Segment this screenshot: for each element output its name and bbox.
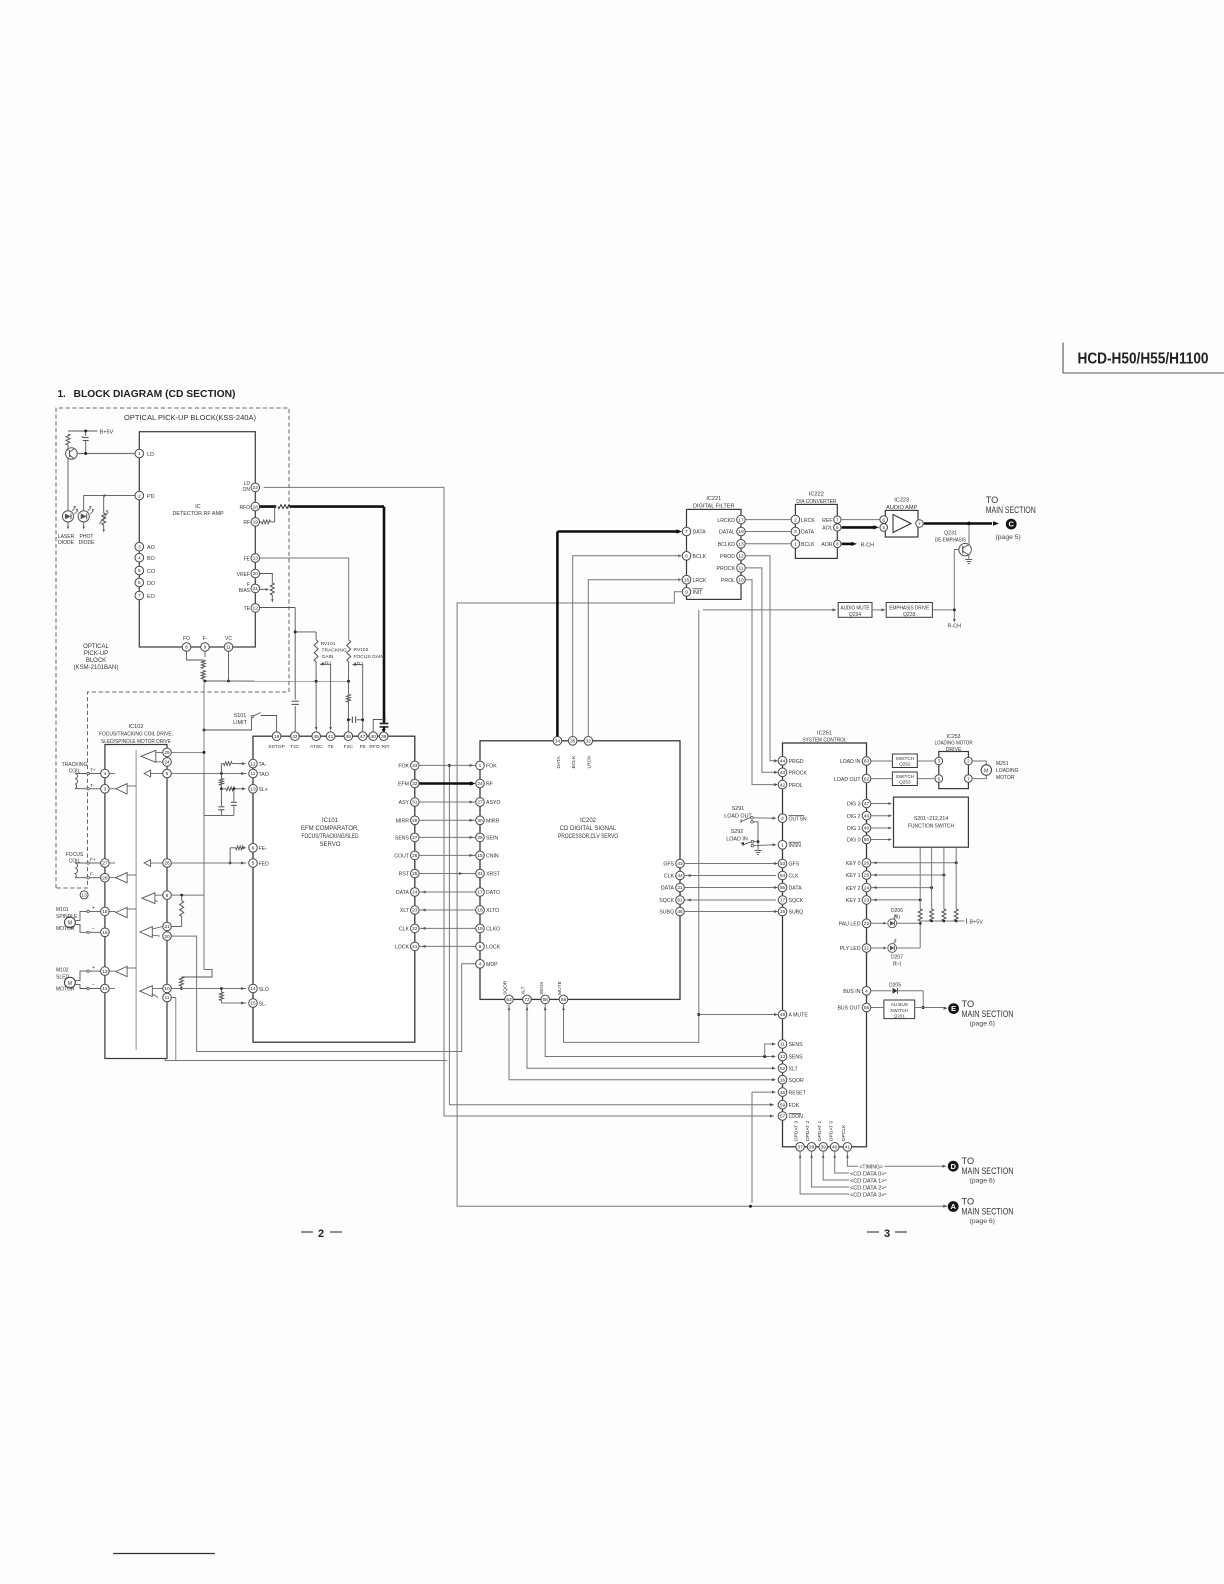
svg-text:10: 10 — [164, 986, 170, 992]
IC251 pin 38 DPDAT2 — [805, 1121, 816, 1152]
IC251 pin 63 LOAD IN — [840, 757, 871, 766]
wire S291 lower contact — [753, 822, 759, 850]
wire SLO row — [171, 987, 246, 990]
svg-text:AO: AO — [147, 545, 155, 551]
switch S101 limit — [233, 713, 276, 732]
IC223 box — [885, 510, 918, 537]
AU bus switch Q201 box — [884, 1000, 915, 1019]
svg-text:16: 16 — [780, 1077, 786, 1083]
svg-text:45: 45 — [780, 1090, 786, 1096]
IC251 pin 11 SENS — [778, 1040, 803, 1049]
svg-text:B+5V: B+5V — [100, 429, 114, 435]
svg-text:13: 13 — [250, 787, 256, 793]
svg-text:T2C: T2C — [290, 744, 300, 750]
svg-text:11: 11 — [226, 645, 231, 651]
svg-text:23: 23 — [864, 898, 870, 904]
IC253 pin 3 — [935, 757, 943, 765]
wire SENS rows — [544, 1004, 776, 1058]
svg-text:43: 43 — [780, 770, 786, 776]
label D206 — [891, 908, 903, 921]
svg-text:+: + — [81, 435, 84, 440]
svg-text:AOR: AOR — [821, 542, 832, 548]
svg-text:BUS IN: BUS IN — [843, 989, 861, 995]
IC251 pin 56 BUS OUT — [837, 1003, 870, 1012]
svg-text:LRCK: LRCK — [587, 755, 593, 769]
IC101 pin 47 FE — [358, 732, 367, 750]
svg-text:EFM COMPARATOR,: EFM COMPARATOR, — [301, 826, 359, 832]
label photo diode — [79, 534, 96, 546]
svg-text:4: 4 — [479, 962, 482, 968]
wire DATA link 202-251 — [684, 886, 778, 889]
svg-text:TO: TO — [962, 999, 975, 1009]
svg-text:39: 39 — [821, 1145, 827, 1151]
svg-text:LDON: LDON — [789, 1114, 804, 1120]
IC251 pin 1 INSN — [778, 841, 801, 850]
svg-text:31: 31 — [412, 800, 418, 806]
IC202 pin 63 SQOR — [503, 980, 514, 1004]
wire TAO row — [171, 772, 246, 775]
label CD DATA 0 — [850, 1171, 885, 1177]
svg-text:IC221: IC221 — [706, 496, 721, 502]
svg-text:Q234: Q234 — [849, 612, 861, 618]
svg-text:BLOCK DIAGRAM (CD SECTION): BLOCK DIAGRAM (CD SECTION) — [74, 389, 236, 400]
wire LOCK link — [419, 945, 475, 948]
svg-text:TRACKING: TRACKING — [62, 762, 88, 768]
IC222 pin 3 DATA — [791, 527, 815, 536]
resistor R101 — [66, 434, 70, 445]
IC101 pin 15 SL- — [249, 999, 267, 1008]
wire DIG 2 — [871, 814, 892, 817]
svg-text:DATA: DATA — [556, 755, 562, 768]
label page 6 D — [970, 1178, 995, 1185]
wire A MUTE row — [699, 1013, 778, 1016]
RF amp pin 7 EO — [135, 591, 155, 600]
wire CLK link 202-251 — [684, 874, 776, 877]
svg-text:RFO: RFO — [239, 505, 250, 511]
wire RV101 wiper to TE pin41 — [329, 664, 332, 732]
svg-text:25: 25 — [164, 750, 170, 756]
IC101 box — [253, 736, 415, 1042]
svg-text:68: 68 — [543, 997, 549, 1003]
svg-text:IC101: IC101 — [322, 818, 339, 824]
svg-text:KEY 0: KEY 0 — [846, 861, 861, 867]
svg-text:TE: TE — [244, 606, 251, 612]
LED D207 play — [871, 939, 920, 952]
svg-text:SENS: SENS — [539, 981, 545, 995]
IC251 pin 45 RESET — [778, 1088, 806, 1097]
svg-text:4: 4 — [865, 989, 868, 995]
label RV102 — [354, 647, 385, 667]
svg-text:DIG 3: DIG 3 — [847, 802, 861, 808]
svg-text:LOAD OUT: LOAD OUT — [834, 777, 861, 783]
switch Q253 box — [892, 772, 917, 786]
IC253 label — [935, 734, 973, 753]
svg-text:+: + — [92, 905, 95, 911]
IC251 box — [783, 743, 867, 1147]
svg-text:+: + — [92, 965, 95, 971]
svg-text:21: 21 — [253, 586, 259, 592]
svg-text:40: 40 — [371, 734, 377, 740]
svg-text:SUBQ: SUBQ — [789, 910, 804, 916]
label CD DATA 1 — [850, 1178, 885, 1184]
svg-text:IC223: IC223 — [894, 497, 909, 503]
svg-text:MOTOR: MOTOR — [56, 926, 75, 932]
svg-text:RST: RST — [399, 872, 410, 878]
wire RFO pin40 link — [373, 718, 385, 732]
IC251 pin 37 DPDAT3 — [794, 1121, 805, 1152]
wire DIG 0 — [871, 838, 892, 841]
svg-text:6: 6 — [479, 944, 482, 950]
capacitor net 2 — [231, 789, 237, 816]
IC251 pin 48 A MUTE — [778, 1010, 808, 1019]
wire SL- row — [171, 998, 246, 1005]
svg-text:26: 26 — [412, 853, 418, 859]
IC221 pin 11 PROCK — [717, 564, 746, 573]
IC101 pin 12 TA- — [249, 759, 267, 768]
wire SENS link — [419, 836, 475, 839]
svg-text:22: 22 — [864, 921, 870, 927]
wire LRCK to IC221 — [588, 578, 682, 736]
svg-text:DPDAT 2: DPDAT 2 — [805, 1121, 811, 1141]
svg-text:CO: CO — [147, 569, 155, 575]
svg-text:EMPHASIS DRIVE: EMPHASIS DRIVE — [889, 605, 930, 611]
IC102 pin 20b — [163, 932, 172, 941]
svg-text:FOK: FOK — [486, 764, 497, 770]
rail x204 — [171, 681, 205, 774]
svg-text:2: 2 — [138, 493, 141, 499]
IC253 pin 2 — [965, 757, 973, 765]
svg-text:DETECTOR.RF AMP: DETECTOR.RF AMP — [172, 511, 224, 517]
resistor key 1 — [918, 909, 922, 921]
svg-text:59: 59 — [780, 1102, 786, 1108]
IC202 pin 68 SENS — [539, 981, 550, 1004]
wire LOAD OUT to switch — [871, 778, 893, 780]
svg-text:VREF: VREF — [237, 572, 250, 578]
IC detector RF amp box — [139, 432, 255, 647]
svg-text:20: 20 — [253, 571, 259, 577]
IC221 pin 16 LRCK — [682, 575, 707, 584]
svg-text:RV102: RV102 — [354, 647, 369, 653]
svg-text:19: 19 — [274, 734, 280, 740]
svg-text:HCD-H50/H55/H1100: HCD-H50/H55/H1100 — [1078, 351, 1209, 368]
IC101 pin 6 FE- — [249, 844, 267, 853]
IC102 pin 5b — [163, 769, 172, 778]
svg-text:<CD DATA 2>: <CD DATA 2> — [850, 1185, 885, 1191]
svg-text:Q253: Q253 — [899, 780, 911, 785]
IC251 pin 4 BUS IN — [843, 987, 871, 996]
IC202 pin 30 MIRR — [476, 816, 500, 825]
pot F BIAS — [260, 583, 275, 595]
svg-text:40: 40 — [832, 1145, 838, 1151]
svg-text:32: 32 — [586, 739, 592, 745]
svg-text:IC: IC — [195, 504, 200, 510]
wire FE- row — [229, 846, 247, 865]
svg-text:IC253: IC253 — [947, 734, 961, 740]
RF amp pin 19 RF — [243, 518, 259, 527]
IC202 pin 21 DATA — [661, 883, 684, 892]
svg-text:ASYO: ASYO — [486, 800, 500, 806]
IC251 pin 47 DIG 3 — [847, 799, 871, 808]
svg-text:MDP: MDP — [486, 962, 498, 968]
svg-text:12: 12 — [250, 761, 256, 767]
wire DPDAT3 out — [799, 1151, 887, 1194]
label R-CH bottom — [948, 624, 962, 630]
svg-text:FOK: FOK — [789, 1103, 800, 1109]
IC222 label — [796, 491, 836, 505]
svg-text:6: 6 — [138, 580, 141, 586]
svg-text:PROL: PROL — [789, 783, 803, 789]
section heading — [58, 389, 236, 400]
svg-text:15: 15 — [250, 1001, 256, 1007]
wire DPDAT0 out — [833, 1151, 886, 1173]
IC202 pin 17 DATO — [476, 888, 500, 897]
op-amp A5 — [116, 873, 127, 883]
IC202 pin 34 DATA — [553, 737, 562, 769]
svg-text:58: 58 — [561, 997, 567, 1003]
wire DIG 3 — [871, 802, 892, 805]
svg-text:(page 6): (page 6) — [970, 1021, 995, 1028]
label TIMING — [860, 1165, 883, 1171]
svg-text:MIRR: MIRR — [396, 819, 410, 825]
svg-text:BCLK: BCLK — [693, 554, 707, 560]
svg-text:−: − — [92, 983, 95, 989]
svg-text:KEY 1: KEY 1 — [846, 873, 861, 879]
wire MIRR link — [419, 819, 475, 822]
IC251 pin 46 DIG 2 — [847, 811, 871, 820]
switch S292 load in — [726, 829, 753, 847]
svg-text:BCLKD: BCLKD — [718, 542, 736, 548]
svg-text:52: 52 — [780, 1066, 786, 1072]
svg-text:FOK: FOK — [398, 764, 409, 770]
wire mute to emphasis — [872, 608, 886, 611]
svg-text:17: 17 — [477, 890, 483, 896]
wire RFO thick — [260, 505, 384, 509]
wire KEY 2 — [871, 886, 933, 889]
op-amp A6 — [142, 893, 155, 904]
svg-text:30: 30 — [477, 818, 483, 824]
IC251 pin 54 CLK — [778, 871, 799, 880]
svg-text:21: 21 — [677, 885, 683, 891]
svg-text:SQCK: SQCK — [659, 898, 674, 904]
section D circle — [948, 1161, 959, 1172]
switch S291 load out — [724, 806, 753, 823]
IC202 pin 46 SUBQ — [659, 907, 684, 916]
svg-text:TAO: TAO — [259, 772, 269, 778]
svg-text:FO: FO — [183, 636, 190, 642]
label M102 — [56, 968, 75, 993]
wire RF pin resistor — [260, 507, 275, 524]
svg-text:12: 12 — [102, 986, 108, 992]
svg-text:9: 9 — [685, 590, 688, 596]
svg-text:29: 29 — [412, 818, 418, 824]
optical pick-up block label KSM-2101BAN — [74, 644, 119, 671]
svg-text:PAU LED: PAU LED — [839, 922, 861, 928]
wire S291 to OUTSN — [753, 817, 776, 820]
RF amp pin 13 FE — [244, 554, 260, 563]
svg-text:50: 50 — [864, 837, 870, 843]
svg-text:15: 15 — [477, 853, 483, 859]
wire PROD to PRGD — [745, 556, 778, 763]
svg-text:(II): (II) — [894, 915, 900, 921]
svg-text:XLT: XLT — [789, 1066, 799, 1072]
IC202 label — [558, 818, 618, 840]
svg-text:GAIN: GAIN — [322, 654, 334, 660]
label RV101 — [321, 641, 347, 667]
svg-text:24: 24 — [477, 781, 483, 787]
wire S292 to INSN — [754, 843, 777, 846]
wire FE to RV102 — [260, 558, 349, 640]
IC251 pin 52 XLT — [778, 1064, 798, 1073]
capacitor net 1 — [218, 807, 224, 816]
label B+5V right — [970, 919, 984, 925]
wire CLK link — [419, 927, 475, 930]
RF amp pin 3 AO — [135, 542, 155, 551]
wire ASY link — [419, 800, 475, 803]
IC102 pin 13b — [101, 967, 110, 976]
svg-text:24: 24 — [864, 885, 870, 891]
svg-text:OPTICAL: OPTICAL — [83, 644, 109, 650]
svg-text:INIT: INIT — [693, 590, 704, 596]
IC223 pin 7 — [916, 520, 924, 528]
label M251 loading motor — [996, 761, 1019, 781]
key column 3 — [943, 847, 945, 909]
svg-text:F-: F- — [90, 872, 95, 878]
svg-text:54: 54 — [780, 873, 786, 879]
wire MDP to IC102 pin20 — [171, 936, 475, 1051]
svg-text:1.: 1. — [58, 389, 67, 400]
function switch label — [908, 816, 954, 830]
svg-text:PROD: PROD — [720, 554, 735, 560]
svg-text:FOCUS/TRACKING COIL DRIVE,: FOCUS/TRACKING COIL DRIVE, — [99, 732, 173, 738]
svg-text:41: 41 — [328, 734, 334, 740]
svg-text:F2C: F2C — [344, 744, 354, 750]
wire BCLK to IC221 — [573, 554, 682, 736]
IC221 pin 17 LRCKD — [717, 515, 745, 524]
wire AOL thick — [842, 525, 879, 529]
svg-text:TO: TO — [986, 495, 999, 505]
svg-text:61: 61 — [677, 898, 683, 904]
IC101 pin 19 SSTOP — [268, 732, 285, 750]
svg-text:SUBQ: SUBQ — [659, 910, 674, 916]
svg-text:M251: M251 — [996, 761, 1009, 767]
wire Q253 to IC253 — [917, 778, 934, 780]
capacitor on RFI line — [380, 722, 389, 735]
wire Q252 to IC253 — [917, 760, 934, 762]
svg-text:CLK: CLK — [664, 874, 675, 880]
label TO MAIN SECTION D — [962, 1156, 1014, 1176]
svg-text:F-: F- — [203, 636, 208, 642]
svg-text:DIG 2: DIG 2 — [847, 814, 861, 820]
svg-text:DPDAT 3: DPDAT 3 — [794, 1121, 800, 1141]
IC222 pin 8 AOR — [821, 540, 841, 548]
svg-text:PROL: PROL — [721, 578, 735, 584]
pot RV101 tracking gain — [314, 632, 331, 666]
network base wire — [204, 774, 234, 816]
svg-text:SWITCH: SWITCH — [896, 756, 915, 761]
RF amp pin 5 CO — [135, 566, 155, 575]
svg-text:MOTOR: MOTOR — [996, 775, 1015, 781]
svg-text:21: 21 — [412, 944, 418, 950]
svg-text:1: 1 — [138, 451, 141, 457]
key column 1 — [919, 847, 921, 909]
svg-text:(page 6): (page 6) — [970, 1178, 995, 1185]
motor M102 sled — [65, 965, 101, 990]
IC202 pin 18 XLTO — [476, 906, 499, 915]
svg-text:LIMIT: LIMIT — [233, 720, 247, 726]
IC251 pin 57 LDON — [778, 1112, 803, 1121]
wire RESET from A bus — [752, 1091, 776, 1203]
svg-text:LRCK: LRCK — [801, 518, 815, 524]
svg-text:7: 7 — [685, 529, 688, 535]
svg-text:RFO: RFO — [369, 744, 380, 750]
svg-text:RF: RF — [243, 520, 250, 526]
svg-text:EFM: EFM — [398, 782, 409, 788]
svg-text:2: 2 — [318, 1228, 324, 1240]
svg-text:D: D — [950, 1162, 956, 1171]
svg-text:M: M — [984, 768, 989, 774]
svg-text:DIODE: DIODE — [58, 540, 75, 546]
transistor Q101 — [66, 445, 78, 511]
RF amp pin 21 F BIAS — [239, 582, 260, 594]
emphasis drive Q233 box — [886, 603, 932, 618]
svg-text:4: 4 — [104, 771, 107, 777]
photo diode D102 — [78, 506, 94, 530]
wire AOR R-CH — [842, 542, 874, 549]
wire IC253 to motor — [972, 761, 986, 779]
svg-text:42: 42 — [292, 734, 298, 740]
svg-text:XRST: XRST — [486, 872, 501, 878]
svg-text:PICK-UP: PICK-UP — [84, 651, 108, 657]
svg-text:EO: EO — [147, 594, 155, 600]
svg-text:LOADING MOTOR: LOADING MOTOR — [935, 741, 973, 747]
section C circle — [1006, 519, 1017, 530]
svg-text:25: 25 — [864, 873, 870, 879]
svg-text:18: 18 — [738, 529, 744, 535]
LED D206 pause — [871, 914, 920, 927]
IC251 pin 59 FOK — [778, 1100, 800, 1109]
IC101 pin 46 F2C — [344, 732, 354, 750]
resistor sled feed — [179, 977, 183, 990]
svg-text:46: 46 — [864, 813, 870, 819]
svg-text:PD: PD — [147, 494, 155, 500]
svg-text:DATAL: DATAL — [719, 530, 735, 536]
IC101 pin 23 XLT — [400, 906, 419, 915]
svg-text:20: 20 — [164, 934, 170, 940]
wire DATA thick to IC221 — [557, 529, 682, 736]
svg-text:LOCK: LOCK — [395, 945, 410, 951]
svg-text:25: 25 — [412, 871, 418, 877]
capacitor C101 — [81, 431, 89, 454]
resistor key 2 — [930, 909, 934, 921]
svg-text:PLY LED: PLY LED — [840, 946, 861, 952]
IC202 pin 58 MUTE — [557, 980, 568, 1003]
svg-text:SWITCH: SWITCH — [890, 1008, 908, 1013]
svg-text:GFS: GFS — [789, 862, 800, 868]
wire rail to sled net — [181, 969, 212, 977]
wire TA- row — [221, 762, 246, 766]
svg-text:DATA: DATA — [789, 886, 803, 892]
svg-text:S201~212,214: S201~212,214 — [914, 816, 949, 822]
IC101 pin 39 RFI — [379, 732, 389, 750]
IC251 pin 22 PAU LED — [839, 919, 871, 928]
svg-text:DIG 1: DIG 1 — [847, 826, 861, 832]
svg-text:55: 55 — [780, 885, 786, 891]
svg-text:48: 48 — [780, 1012, 786, 1018]
svg-text:VC: VC — [225, 636, 232, 642]
svg-text:−: − — [92, 927, 95, 933]
IC251 pin 42 PROL — [778, 780, 803, 789]
svg-text:19: 19 — [253, 520, 259, 526]
